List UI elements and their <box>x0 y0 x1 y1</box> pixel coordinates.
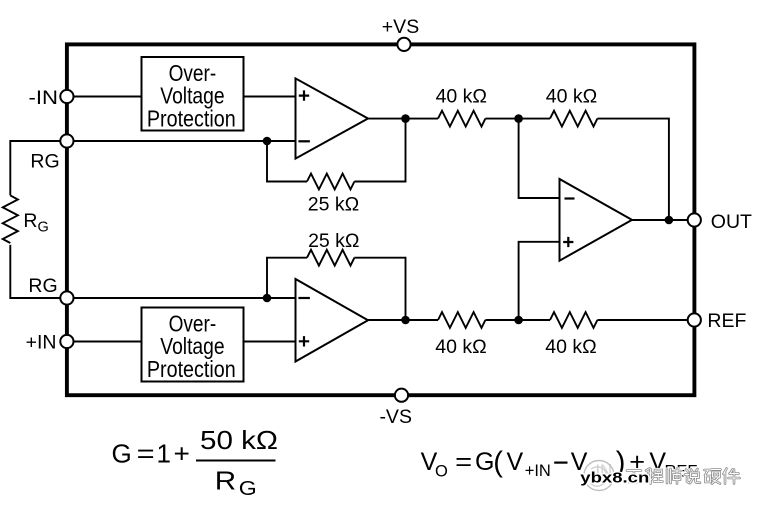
resistor 25 kOhm (A2 feedback) <box>307 250 354 266</box>
op-amp A1 <box>296 78 369 158</box>
wire external RG top <box>10 141 67 195</box>
wire A1 output <box>367 118 439 120</box>
output equation VO = G(V+IN - V-IN) + VREF <box>421 446 698 480</box>
svg-text:40 kΩ: 40 kΩ <box>435 336 486 358</box>
terminal RG top <box>60 134 73 147</box>
terminal OUT <box>688 213 701 226</box>
resistor 40 kOhm top-right <box>550 111 597 127</box>
svg-text:G: G <box>112 439 132 469</box>
terminal +VS <box>397 38 410 51</box>
svg-text:+: + <box>174 439 190 469</box>
svg-text:(: ( <box>493 446 503 478</box>
wire OVP2 to op-amp A2 noninverting input <box>244 341 297 343</box>
svg-text:G: G <box>239 477 257 500</box>
svg-text:RG: RG <box>28 275 57 297</box>
junction node top middle <box>514 114 523 123</box>
terminal +IN <box>60 335 73 348</box>
wire bottom middle segment <box>485 319 550 321</box>
junction node A1 inverting <box>263 137 272 146</box>
watermark text gong (engineer char 1) <box>626 471 642 483</box>
svg-text:R: R <box>215 466 236 496</box>
resistor 25 kOhm (A1 feedback) <box>307 174 354 190</box>
wire RG1 to op-amp A1 inverting input <box>67 140 297 142</box>
svg-text:OUT: OUT <box>711 211 752 233</box>
wire feedback A2 right to output node <box>354 258 405 320</box>
watermark text cheng (engineer char 2) <box>646 469 663 484</box>
junction node bottom middle <box>514 316 523 325</box>
watermark text jian (component char 6) <box>724 469 740 484</box>
watermark text shuo (talk char 4) <box>685 469 700 483</box>
wire feedback A1 left vertical <box>267 141 307 182</box>
junction node A2 output <box>401 316 410 325</box>
svg-text:+IN: +IN <box>26 332 57 354</box>
gain equation G = 1 + 50k/RG <box>112 425 279 500</box>
over-voltage protection block 1 <box>142 57 244 132</box>
svg-text:1: 1 <box>157 439 171 469</box>
resistor RG external <box>3 195 18 243</box>
svg-text:25 kΩ: 25 kΩ <box>308 194 359 216</box>
junction node A1 output <box>401 114 410 123</box>
wire RG2 to op-amp A2 inverting input <box>67 297 297 299</box>
svg-text:ybx8.cn: ybx8.cn <box>580 471 649 487</box>
svg-text:RG: RG <box>23 210 48 236</box>
wire A2 output <box>367 319 438 321</box>
wire -IN to over-voltage protection 1 <box>67 96 142 98</box>
wire feedback A1 right to output node <box>354 119 405 182</box>
op-amp A2 <box>296 279 369 362</box>
svg-text:+VS: +VS <box>382 16 419 38</box>
wire top middle segment <box>485 118 550 120</box>
terminal RG bottom <box>60 291 73 304</box>
junction node output <box>665 216 674 225</box>
watermark text shi (engineer char 3) <box>667 469 681 484</box>
svg-text:O: O <box>435 463 448 481</box>
resistor 40 kOhm bottom-left <box>438 312 485 328</box>
wire external RG bottom <box>10 245 67 298</box>
watermark text ying (hard char 5) <box>705 470 721 484</box>
wire +IN to over-voltage protection 2 <box>67 341 142 343</box>
svg-text:50 kΩ: 50 kΩ <box>200 425 278 455</box>
IC boundary box <box>67 44 695 395</box>
terminal -VS <box>395 389 408 402</box>
svg-text:G: G <box>475 448 494 476</box>
wire to REF terminal <box>597 319 694 321</box>
wire top feedback to output node <box>597 119 669 220</box>
wire feedback A2 left vertical <box>267 258 307 298</box>
resistor 40 kOhm top-left <box>438 111 485 127</box>
wire top node to op-amp A3 inverting input <box>519 119 561 198</box>
over-voltage protection block 2 <box>142 308 244 383</box>
op-amp A3 output <box>560 179 633 261</box>
svg-text:40 kΩ: 40 kΩ <box>545 336 596 358</box>
svg-text:-VS: -VS <box>379 406 412 428</box>
junction node A2 inverting <box>263 294 272 303</box>
svg-text:+IN: +IN <box>525 462 551 480</box>
svg-text:Protection: Protection <box>147 106 236 132</box>
svg-text:=: = <box>455 448 472 476</box>
svg-text:RG: RG <box>30 151 59 173</box>
watermark logo circle <box>584 461 614 491</box>
wire A3 output to OUT <box>631 219 694 221</box>
wire bottom node to op-amp A3 noninverting input <box>519 242 561 320</box>
wire OVP1 to op-amp A1 noninverting input <box>244 96 297 98</box>
svg-text:-IN: -IN <box>29 87 59 109</box>
svg-text:V: V <box>507 448 524 476</box>
svg-text:REF: REF <box>707 310 746 332</box>
terminal -IN <box>60 90 73 103</box>
svg-text:25 kΩ: 25 kΩ <box>308 230 359 252</box>
terminal REF <box>688 313 701 326</box>
svg-text:40 kΩ: 40 kΩ <box>436 86 487 108</box>
resistor 40 kOhm bottom-right <box>550 312 597 328</box>
svg-text:40 kΩ: 40 kΩ <box>546 86 597 108</box>
svg-text:=: = <box>137 439 155 469</box>
svg-text:Protection: Protection <box>147 356 236 382</box>
